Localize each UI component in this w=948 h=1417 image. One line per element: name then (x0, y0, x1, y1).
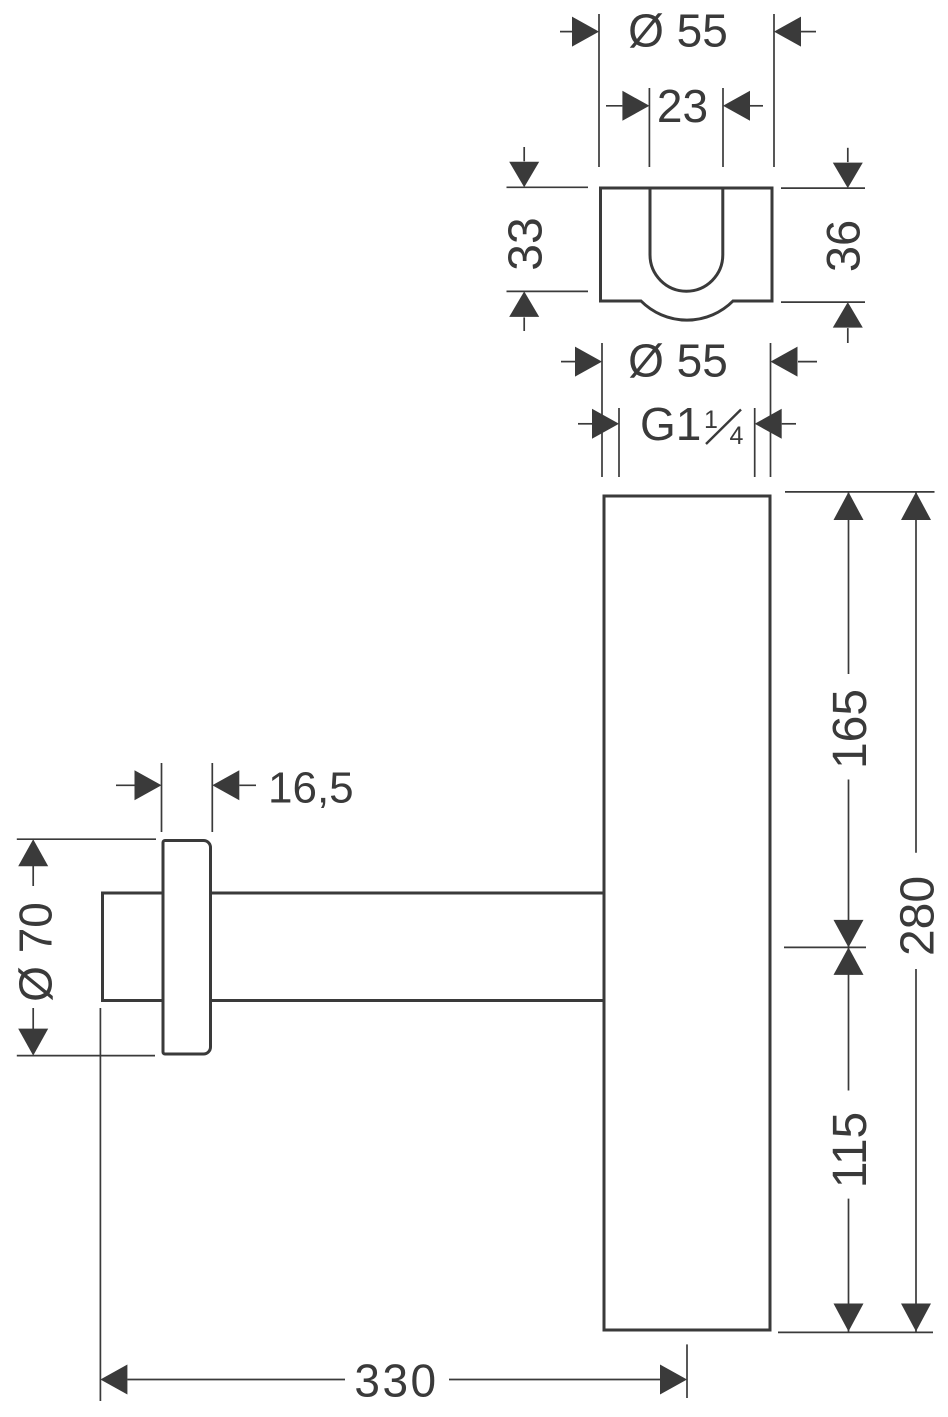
extension line top of dim 36 (781, 187, 865, 189)
extension line right of dim Ø55 lower (770, 343, 772, 477)
extension line bottom of dim 33 (507, 290, 589, 292)
arrow Ø55 top right (774, 17, 801, 47)
outlet pipe left end (103, 893, 164, 1001)
dim G1-1/4 left leader (578, 423, 592, 425)
dim Ø55 top left leader (560, 31, 572, 33)
extension line left of dim 330 (99, 1008, 101, 1401)
arrow Ø70 bottom (18, 1029, 48, 1056)
top extension line of dims 165/280 (785, 491, 935, 493)
arrow 36 bottom (833, 302, 863, 328)
arrow 280 bottom (901, 1304, 931, 1332)
dim G1-1/4 right leader (782, 423, 796, 425)
arrow G1-1/4 left (592, 409, 619, 439)
arrow G1-1/4 right (755, 409, 782, 439)
arrow Ø55 top left (572, 17, 599, 47)
dim line 330 right segment (449, 1379, 660, 1381)
svg-text:4: 4 (730, 422, 744, 450)
extension line left of dim Ø55 top (598, 14, 600, 167)
dim line 115 upper segment (848, 947, 850, 1090)
svg-text:36: 36 (817, 220, 870, 272)
bottom extension line of dims 115/280 (778, 1331, 933, 1333)
extension tick right of dim 330 (body centreline) (686, 1344, 688, 1398)
arrow 165 top (834, 492, 864, 520)
wall rosette / escutcheon (163, 841, 211, 1055)
svg-text:G1: G1 (640, 398, 701, 450)
extension line right of dim Ø55 top (773, 14, 775, 167)
arrow 36 top (833, 163, 863, 189)
dim Ø55 lower left leader (561, 361, 575, 363)
extension line left of dim G1-1/4 (618, 408, 620, 477)
svg-text:165: 165 (824, 689, 877, 769)
dim 36 top leader (847, 148, 849, 162)
dim 33 top leader (523, 147, 525, 161)
dim Ø70 upper leader (32, 866, 34, 886)
dim line 115 lower segment (848, 1199, 850, 1332)
fraction slash (706, 410, 741, 445)
arrow 23 right (723, 91, 750, 121)
arrow 33 bottom (509, 291, 539, 317)
extension line right of dim G1-1/4 (754, 408, 756, 477)
dim 33 bottom leader (523, 317, 525, 331)
extension line right of dim 23 (722, 88, 724, 167)
outlet pipe right arm top line (211, 892, 605, 895)
arrow 115 bottom (834, 1304, 864, 1332)
arrow Ø55 lower left (575, 347, 602, 377)
extension line left of dim Ø55 lower (601, 343, 603, 477)
extension line top of dim Ø70 (17, 838, 156, 840)
svg-text:1: 1 (704, 406, 718, 434)
arrow 330 left (100, 1365, 127, 1395)
dim Ø55 top right leader (801, 31, 816, 33)
dim Ø55 lower right leader (798, 361, 817, 363)
dim 36 bottom leader (847, 328, 849, 343)
svg-text:330: 330 (354, 1355, 438, 1407)
extension line right of dim 16,5 (211, 763, 213, 832)
svg-text:Ø 70: Ø 70 (10, 902, 62, 1002)
arrow Ø55 lower right (771, 347, 798, 377)
dim line 280 lower segment (915, 969, 917, 1332)
arrow Ø70 top (18, 839, 48, 866)
svg-text:23: 23 (657, 80, 708, 132)
middle extension line at arm centre (784, 946, 866, 948)
svg-text:115: 115 (824, 1112, 877, 1189)
extension line bottom of dim Ø70 (17, 1055, 155, 1057)
outlet pipe right arm bottom line (211, 999, 605, 1002)
dim 16,5 left leader (116, 784, 135, 786)
dim line 165 lower segment (848, 780, 850, 948)
dim line 280 upper segment (915, 492, 917, 853)
arrow 115 top (834, 947, 864, 975)
wall flange outline (top view) (601, 188, 773, 320)
extension line top of dim 33 (507, 186, 589, 188)
dim 23 left leader (606, 105, 622, 107)
arrow 23 left (622, 91, 649, 121)
svg-text:16,5: 16,5 (268, 764, 354, 813)
arrow 165 bottom (834, 920, 864, 948)
extension line left of dim 16,5 (161, 763, 163, 832)
dim 23 right leader (750, 105, 763, 107)
fraction 1/4 of thread label (704, 406, 744, 450)
siphon body (front view) (604, 496, 770, 1330)
arrow 330 right (660, 1365, 687, 1395)
svg-text:Ø 55: Ø 55 (628, 335, 728, 387)
svg-text:33: 33 (500, 217, 553, 270)
arrow 16,5 right (212, 770, 239, 800)
extension line left of dim 23 (648, 88, 650, 167)
extension line bottom of dim 36 (781, 301, 865, 303)
dim line 165 upper segment (848, 492, 850, 674)
arrow 280 top (901, 492, 931, 520)
dim line 330 left segment (127, 1379, 345, 1381)
arrow 33 top (509, 162, 539, 188)
dim 16,5 right leader (239, 784, 256, 786)
svg-text:280: 280 (892, 876, 945, 956)
arrow 16,5 left (135, 770, 162, 800)
svg-text:Ø 55: Ø 55 (628, 5, 728, 57)
dim Ø70 lower leader (32, 1008, 34, 1029)
U-shaped cutout in flange (650, 188, 723, 291)
